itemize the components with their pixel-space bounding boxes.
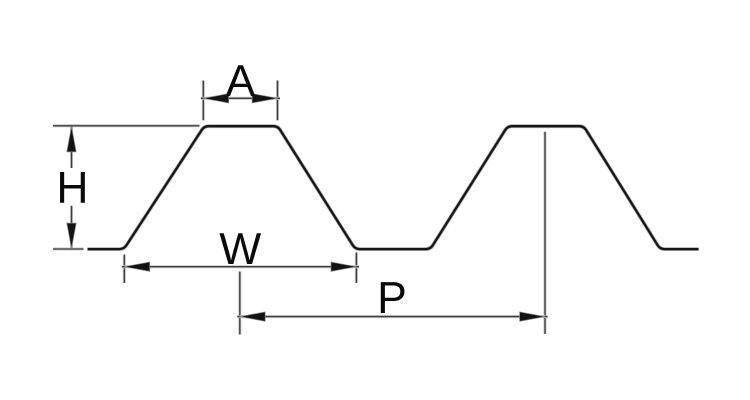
dimension W extension line left [123, 255, 126, 284]
profile outline (trapezoidal rib sheet section) [88, 126, 699, 249]
dimension A line [201, 97, 280, 100]
dimension P line [237, 315, 547, 318]
svg-text:A: A [226, 57, 256, 106]
dimension H extension line top [53, 124, 200, 127]
svg-text:P: P [377, 274, 407, 323]
dimension H line lower segment [70, 206, 73, 249]
dimension W line [122, 265, 359, 268]
svg-text:W: W [219, 225, 261, 274]
dimension W extension line right [355, 253, 358, 284]
dimension P extension line left (valley centre) [238, 272, 241, 335]
dimension A arrow right [252, 94, 277, 103]
dimension W arrow right [331, 262, 356, 271]
dimension A extension line left [202, 81, 205, 121]
dimension H extension line bottom [53, 248, 84, 251]
dimension P arrow right [520, 312, 545, 321]
dimension H arrow up [67, 127, 76, 152]
dimension P arrow left [240, 312, 265, 321]
dimension H line upper segment [70, 127, 73, 169]
dimension H arrow down [67, 223, 76, 248]
dimension A arrow left [203, 94, 228, 103]
svg-text:H: H [56, 163, 88, 212]
dimension W arrow left [124, 262, 149, 271]
dimension A extension line right [276, 81, 279, 121]
dimension P extension line right (crown centre) [544, 132, 547, 334]
